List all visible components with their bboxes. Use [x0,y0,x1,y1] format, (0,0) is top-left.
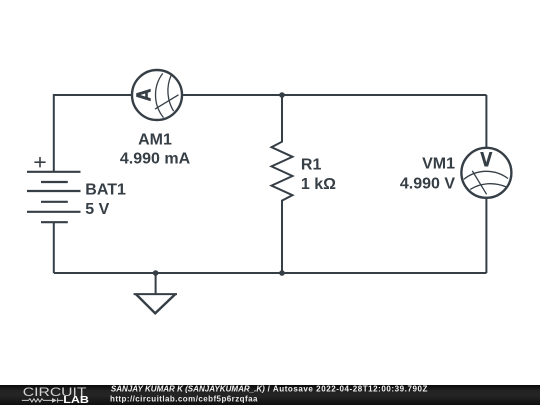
svg-text:SANJAY KUMAR K (SANJAYKUMAR_.K: SANJAY KUMAR K (SANJAYKUMAR_.K) / Autosa… [111,385,428,394]
svg-text:http://circuitlab.com/cebf5p6r: http://circuitlab.com/cebf5p6rzqfaa [110,394,258,403]
svg-text:AM1: AM1 [138,132,172,149]
svg-text:5 V: 5 V [85,201,109,218]
svg-text:4.990 mA: 4.990 mA [120,151,191,168]
svg-text:LAB: LAB [63,395,89,405]
svg-text:1 kΩ: 1 kΩ [301,176,336,193]
svg-text:R1: R1 [301,157,322,174]
svg-text:BAT1: BAT1 [85,182,126,199]
svg-text:VM1: VM1 [422,156,455,173]
svg-text:4.990 V: 4.990 V [400,176,455,193]
